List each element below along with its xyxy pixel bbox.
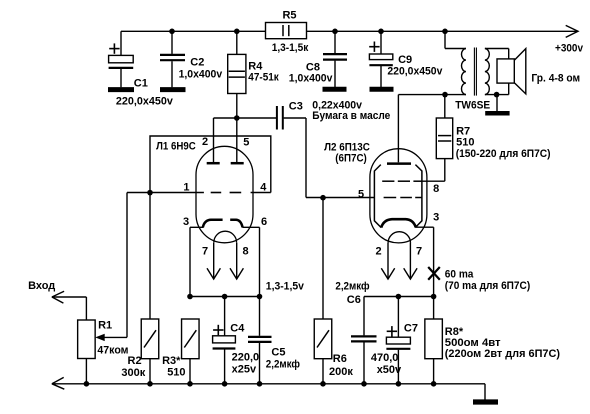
svg-text:5: 5: [243, 136, 249, 148]
svg-text:47-51к: 47-51к: [248, 72, 279, 84]
svg-text:470,0: 470,0: [371, 352, 399, 364]
svg-text:8: 8: [433, 183, 439, 195]
svg-text:R1: R1: [98, 319, 112, 331]
svg-text:C2: C2: [190, 56, 204, 68]
svg-text:3: 3: [183, 216, 189, 228]
svg-text:Гр. 4-8 ом: Гр. 4-8 ом: [531, 72, 580, 84]
svg-text:4: 4: [260, 182, 267, 194]
svg-text:2: 2: [202, 136, 208, 148]
svg-text:2,2мкф: 2,2мкф: [266, 359, 301, 371]
svg-text:8: 8: [242, 245, 248, 257]
svg-text:R3*: R3*: [162, 355, 181, 367]
svg-text:+300v: +300v: [555, 43, 584, 55]
svg-text:x25v: x25v: [232, 364, 257, 376]
svg-text:2: 2: [375, 246, 381, 258]
svg-text:1: 1: [183, 181, 189, 193]
svg-text:1,0x400v: 1,0x400v: [289, 73, 333, 85]
svg-text:C9: C9: [398, 54, 412, 66]
svg-text:R7: R7: [456, 125, 470, 137]
svg-text:2,2мкф: 2,2мкф: [335, 280, 370, 292]
svg-text:(6П7С): (6П7С): [335, 153, 367, 165]
svg-text:60 ma: 60 ma: [445, 268, 474, 280]
svg-text:510: 510: [167, 367, 185, 379]
svg-text:220,0x450v: 220,0x450v: [116, 95, 174, 107]
svg-text:Л1 6Н9С: Л1 6Н9С: [156, 141, 196, 153]
svg-text:510: 510: [456, 137, 474, 149]
svg-text:R2: R2: [128, 355, 142, 367]
svg-text:47ком: 47ком: [97, 345, 128, 357]
svg-text:TW6SE: TW6SE: [455, 99, 490, 111]
svg-text:1,3-1,5v: 1,3-1,5v: [266, 281, 305, 293]
svg-text:(70 ma для 6П7С): (70 ma для 6П7С): [445, 280, 531, 292]
svg-text:7: 7: [416, 246, 422, 258]
svg-text:C3: C3: [289, 101, 303, 113]
svg-text:(220ом 2вт для 6П7С): (220ом 2вт для 6П7С): [445, 348, 561, 360]
svg-text:200к: 200к: [329, 366, 353, 378]
svg-text:5: 5: [358, 188, 364, 200]
svg-text:R6: R6: [333, 353, 347, 365]
svg-text:C4: C4: [230, 322, 245, 334]
svg-text:C5: C5: [271, 347, 285, 359]
svg-text:Вход: Вход: [28, 280, 55, 292]
svg-text:220,0: 220,0: [232, 352, 260, 364]
svg-text:300к: 300к: [121, 367, 145, 379]
svg-text:C1: C1: [134, 78, 148, 90]
svg-text:С6: С6: [347, 294, 361, 306]
svg-text:6: 6: [261, 216, 267, 228]
svg-text:Бумага в масле: Бумага в масле: [312, 110, 390, 122]
svg-text:1,0x400v: 1,0x400v: [179, 68, 223, 80]
svg-text:R4: R4: [248, 60, 263, 72]
svg-text:x50v: x50v: [377, 364, 402, 376]
svg-text:500ом 4вт: 500ом 4вт: [445, 337, 501, 349]
svg-text:1,3-1,5к: 1,3-1,5к: [272, 42, 309, 54]
svg-text:3: 3: [433, 211, 439, 223]
svg-text:C7: C7: [404, 322, 418, 334]
svg-text:220,0x450v: 220,0x450v: [387, 65, 443, 77]
svg-text:(150-220 для 6П7С): (150-220 для 6П7С): [456, 148, 551, 160]
svg-text:7: 7: [202, 245, 208, 257]
svg-text:R5: R5: [282, 9, 296, 21]
